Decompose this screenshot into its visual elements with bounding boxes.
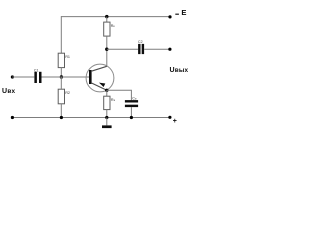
wire bottom ground rail [12, 117, 170, 119]
svg-text:E: E [181, 8, 186, 17]
wire input terminal to C1 [12, 76, 34, 78]
svg-text:R1: R1 [65, 55, 70, 59]
svg-text:Uвх: Uвх [2, 88, 15, 95]
resistor R2 [58, 89, 70, 104]
transistor emitter arrow (PNP, points toward base) [99, 83, 105, 87]
capacitor Ce [125, 96, 138, 107]
transistor collector lead [91, 66, 107, 71]
svg-text:Uвых: Uвых [170, 67, 189, 74]
label minus sign of supply [175, 14, 179, 15]
wire R1 bottom to base node [60, 68, 62, 77]
wire collector node to C2 [107, 48, 138, 50]
node junction dot top of Rk branch [105, 15, 108, 18]
ground symbol [102, 125, 112, 128]
capacitor C2 output [138, 40, 144, 54]
transistor emitter lead [91, 83, 107, 91]
svg-text:C2: C2 [138, 40, 143, 44]
ground stub wire [106, 118, 108, 126]
resistor Re [104, 96, 116, 109]
svg-text:+: + [173, 118, 177, 125]
wire emitter node to Ce branch [107, 90, 132, 100]
terminal dot bottom right [168, 116, 171, 119]
wire top supply rail [61, 16, 170, 18]
svg-text:Rэ: Rэ [111, 98, 116, 102]
wire C1 to base node and transistor base [42, 76, 91, 78]
node junction dot Ce bottom [130, 116, 133, 119]
terminal dot input [11, 75, 14, 78]
node emitter junction dot [105, 89, 108, 92]
terminal dot output [168, 48, 171, 51]
node base divider junction dot [60, 75, 63, 78]
wire left vertical from top rail to R1 [60, 16, 62, 53]
transistor base bar [89, 70, 92, 84]
resistor R1 [58, 53, 70, 67]
node collector junction dot [105, 48, 108, 51]
wire C2 to output terminal [144, 48, 170, 50]
terminal dot bottom left [11, 116, 14, 119]
node junction dot R2 bottom [60, 116, 63, 119]
wire R2 bottom to ground rail [60, 104, 62, 118]
capacitor C1 [34, 69, 42, 84]
node junction dot Re bottom [105, 116, 108, 119]
wire Re bottom to ground rail [106, 110, 108, 118]
svg-text:Rк: Rк [111, 24, 116, 28]
wire base node to R2 top [60, 77, 62, 89]
wire Rk bottom to collector [106, 36, 108, 66]
resistor Rk [104, 22, 116, 36]
terminal dot -E [168, 15, 171, 18]
svg-text:R2: R2 [65, 91, 70, 95]
svg-text:Cэ: Cэ [132, 96, 137, 100]
wire Ce bottom to ground rail [130, 107, 132, 117]
transistor VT1 circle [86, 64, 114, 92]
svg-text:C1: C1 [34, 69, 39, 73]
wire emitter node down to Re [106, 90, 108, 96]
wire top junction down to Rk [106, 17, 108, 23]
